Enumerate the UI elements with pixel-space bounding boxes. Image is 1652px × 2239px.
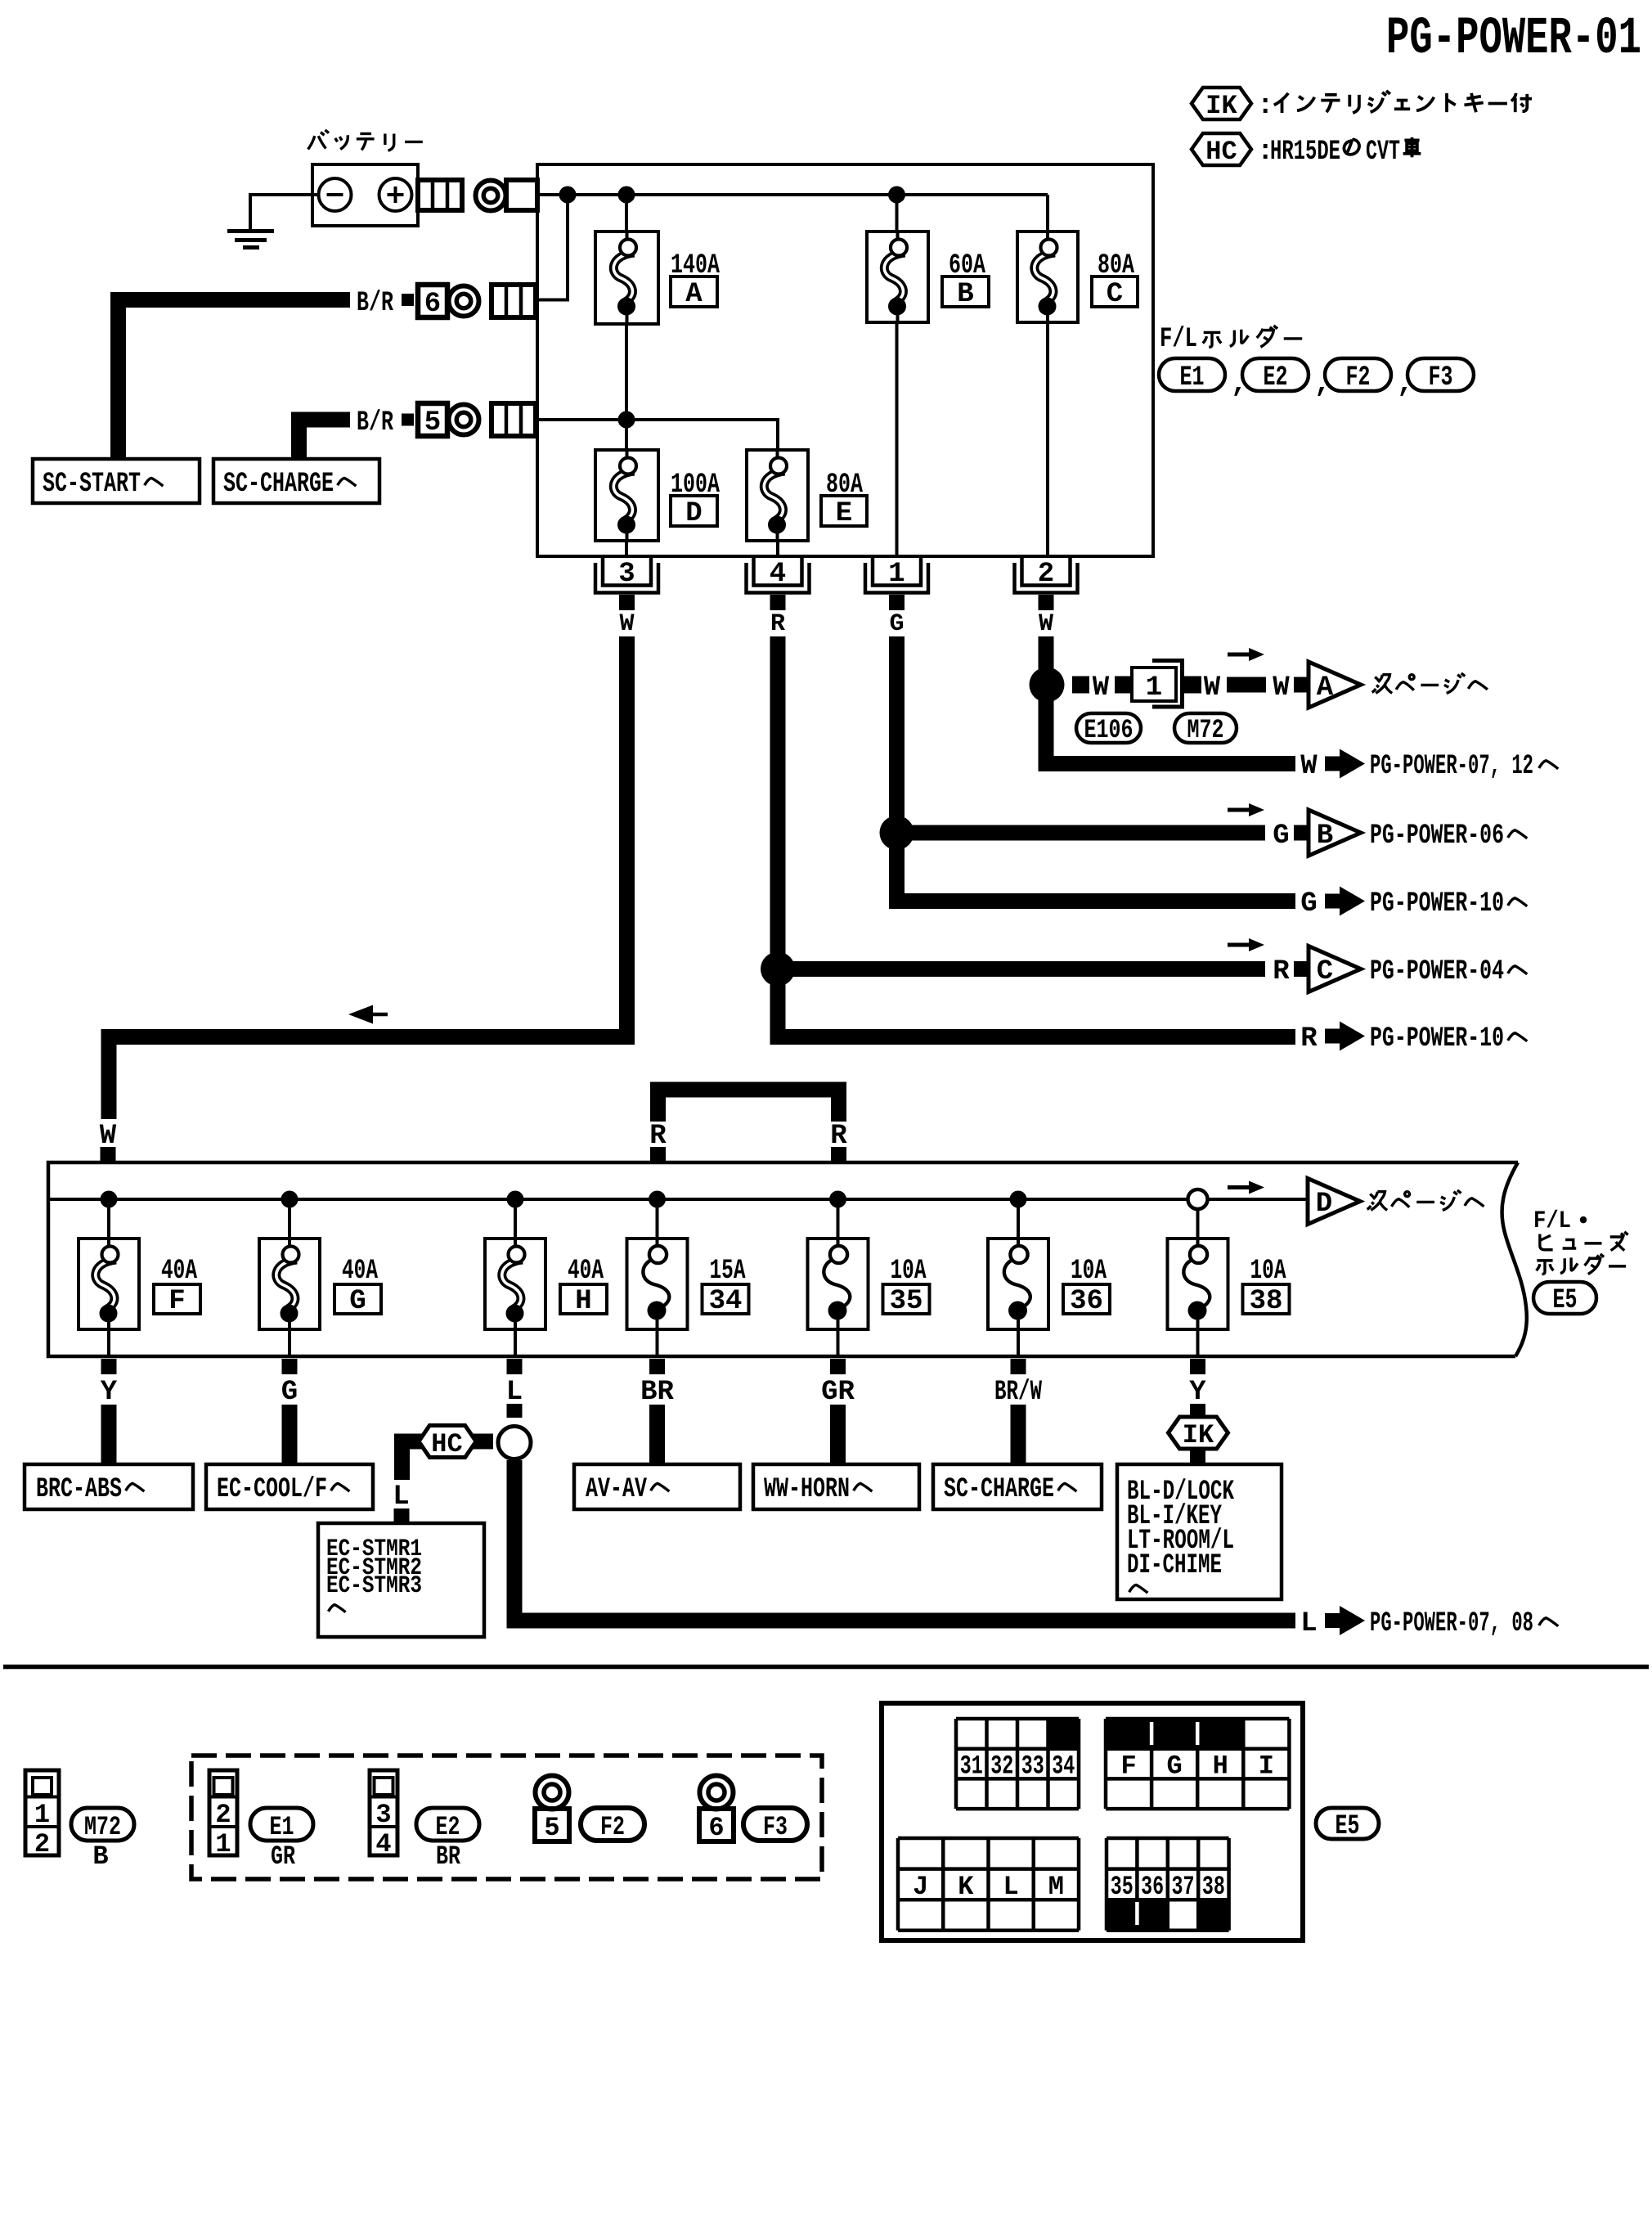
splice circle [498, 1427, 531, 1459]
svg-text:10A: 10A [1250, 1256, 1286, 1287]
svg-text:C: C [1107, 279, 1123, 310]
svg-text:B: B [957, 279, 973, 310]
fuse 35 column wires [837, 1199, 840, 1239]
ground wire [250, 193, 319, 196]
fuse F column wires [107, 1199, 110, 1239]
page connector C [1309, 946, 1361, 992]
svg-text:R: R [770, 610, 785, 638]
connector E2 pin view [370, 1770, 397, 1855]
lower bus wire [537, 420, 778, 450]
svg-text:E2: E2 [1264, 362, 1288, 393]
svg-text:35: 35 [890, 1286, 923, 1317]
fuse body [988, 1239, 1048, 1329]
svg-text:38: 38 [1250, 1286, 1283, 1317]
wire W dash [1227, 677, 1266, 693]
svg-text:E5: E5 [1553, 1285, 1578, 1316]
terminal pin [1039, 595, 1054, 610]
svg-text:I: I [1259, 1751, 1274, 1782]
svg-text:R: R [1300, 1023, 1318, 1054]
pin and label G [282, 1359, 298, 1374]
svg-text:F2: F2 [1346, 362, 1371, 393]
svg-text:BRC-ABS: BRC-ABS [36, 1474, 122, 1505]
AV-AV box [574, 1464, 740, 1509]
fuse grid 35-38 [1107, 1900, 1137, 1931]
SC-START destination box [33, 459, 200, 503]
connector oval F3 [1407, 358, 1474, 391]
ground [227, 229, 274, 233]
svg-text:PG-POWER-04: PG-POWER-04 [1370, 956, 1504, 987]
connector M72 pin view [25, 1770, 59, 1855]
svg-text:SC-CHARGE: SC-CHARGE [944, 1474, 1054, 1505]
svg-text:CVT: CVT [1366, 137, 1400, 168]
branch to PG-POWER-06 [897, 825, 1266, 841]
svg-text:PG-POWER-06: PG-POWER-06 [1370, 821, 1504, 852]
svg-text:IK: IK [1183, 1420, 1214, 1450]
fusible link body [867, 232, 928, 322]
svg-text:W: W [1093, 672, 1110, 704]
svg-text:R: R [1273, 956, 1290, 987]
svg-text:B: B [92, 1841, 108, 1872]
flow arrow right [1228, 943, 1251, 947]
svg-text::: : [1257, 91, 1273, 122]
svg-text:F/L: F/L [1160, 324, 1197, 355]
stub [402, 414, 414, 426]
svg-text:BR: BR [640, 1377, 674, 1408]
dashed group box [191, 1756, 822, 1879]
node dot lower bus [618, 411, 635, 429]
fusible link block E1/E2/F2/F3 [537, 164, 1153, 556]
fuse G column wires [288, 1199, 291, 1239]
pin and label GR [830, 1359, 846, 1374]
svg-text:DI-CHIME: DI-CHIME [1127, 1550, 1222, 1581]
svg-text:6: 6 [708, 1813, 724, 1843]
svg-text:2: 2 [34, 1829, 50, 1859]
hatched connector [492, 403, 536, 436]
svg-text:HC: HC [431, 1429, 462, 1459]
svg-text:6: 6 [424, 289, 441, 320]
fusible link body [79, 1239, 139, 1329]
F/L fuse holder box E5 [48, 1162, 1518, 1356]
svg-text:G: G [1300, 888, 1317, 919]
connector F2 oval [581, 1808, 644, 1841]
svg-text:33: 33 [1021, 1751, 1044, 1782]
svg-text:E1: E1 [1180, 362, 1205, 393]
connector oval E1 [1159, 358, 1225, 391]
svg-text:AV-AV: AV-AV [586, 1474, 647, 1505]
svg-text:1: 1 [1146, 672, 1162, 704]
BRC-ABS box [25, 1464, 193, 1509]
svg-text:5: 5 [424, 407, 441, 438]
svg-text:36: 36 [1141, 1872, 1164, 1902]
fuse body [1168, 1239, 1228, 1329]
arrow to PG-POWER-10 [1325, 1029, 1343, 1044]
legend IK hexagon [1192, 88, 1251, 119]
svg-text:5: 5 [544, 1813, 559, 1843]
svg-text:PG-POWER-10: PG-POWER-10 [1370, 888, 1504, 919]
svg-text:H: H [1213, 1751, 1228, 1782]
svg-text:F: F [1120, 1751, 1136, 1782]
connector E106 oval [1076, 713, 1141, 743]
pin and label Y [101, 1359, 117, 1374]
svg-text:PG-POWER-07, 08: PG-POWER-07, 08 [1370, 1608, 1533, 1639]
EC-STMR box [318, 1523, 484, 1637]
terminal 1 of fuse block [873, 556, 921, 586]
svg-text:L: L [393, 1481, 409, 1513]
BL destination list box [1117, 1464, 1282, 1599]
G wire from terminal 1 [897, 636, 1296, 901]
svg-text:F: F [168, 1286, 185, 1317]
wire GR to WW-HORN [830, 1405, 846, 1464]
svg-text:WW-HORN: WW-HORN [764, 1474, 850, 1505]
svg-text:PG-POWER-07, 12: PG-POWER-07, 12 [1370, 751, 1533, 782]
svg-text:M: M [1048, 1872, 1064, 1902]
R wire from terminal 4 [778, 636, 1295, 1037]
svg-text:F3: F3 [1429, 362, 1453, 393]
wire B/R to SC-START [119, 300, 351, 460]
svg-text:HC: HC [1205, 137, 1237, 167]
svg-text:L: L [1003, 1872, 1019, 1902]
svg-text:E106: E106 [1084, 715, 1134, 745]
flow arrow left [371, 1013, 388, 1017]
separator line [3, 1665, 1649, 1670]
svg-text:A: A [1317, 672, 1334, 704]
fuse grid J-M [896, 1838, 900, 1931]
row A dashes and connector 1 [1072, 677, 1089, 694]
HC branch elbow [402, 1441, 494, 1480]
svg-text:G: G [1167, 1751, 1183, 1782]
flow arrow right [1228, 808, 1251, 812]
terminal pin [889, 595, 905, 610]
svg-text:38: 38 [1202, 1872, 1225, 1902]
connector M72 oval [71, 1808, 134, 1841]
wire B/R to SC-CHARGE [299, 420, 351, 459]
holder bus wire [48, 1198, 1308, 1201]
terminal 3 of fuse block [603, 556, 651, 586]
SC-CHARGE destination box [213, 459, 379, 503]
svg-text:L: L [506, 1377, 523, 1408]
WW-HORN box [753, 1464, 919, 1509]
connector 6 [418, 285, 447, 317]
pin and label Y [1190, 1359, 1205, 1374]
page connector D [1308, 1179, 1360, 1225]
IK hexagon [1169, 1417, 1228, 1449]
open node fuse 38 [1188, 1189, 1208, 1209]
fuse body [627, 1239, 688, 1329]
fusible link body [485, 1239, 545, 1329]
battery connector hatched [418, 180, 462, 210]
svg-text:32: 32 [990, 1751, 1013, 1782]
svg-text:EC-COOL/F: EC-COOL/F [217, 1474, 327, 1505]
svg-text:40A: 40A [342, 1256, 378, 1287]
svg-text:1: 1 [34, 1800, 50, 1830]
svg-text:B/R: B/R [357, 288, 393, 319]
svg-text:PG-POWER-10: PG-POWER-10 [1370, 1023, 1504, 1054]
L column pin [507, 1404, 523, 1418]
legend HC hexagon [1192, 133, 1251, 165]
svg-text:G: G [889, 610, 904, 638]
svg-text:BR: BR [436, 1841, 461, 1872]
svg-text:10A: 10A [891, 1256, 927, 1287]
fusible link body [595, 232, 658, 324]
HC hexagon [419, 1426, 476, 1458]
connector E1 pin view [209, 1770, 237, 1855]
svg-text:W: W [1204, 672, 1221, 704]
svg-text:F3: F3 [763, 1812, 788, 1842]
svg-text:40A: 40A [161, 1256, 197, 1287]
svg-text:E5: E5 [1336, 1811, 1360, 1842]
svg-text:A: A [685, 279, 703, 310]
svg-text:34: 34 [1052, 1751, 1075, 1782]
branch to PG-POWER-04 [778, 961, 1265, 977]
svg-text:4: 4 [375, 1829, 391, 1859]
svg-text:GR: GR [821, 1377, 855, 1408]
wire G to EC-COOL/F [282, 1405, 298, 1464]
node dots holder bus [101, 1191, 118, 1208]
fusible link body [1017, 232, 1078, 322]
svg-text:4: 4 [770, 559, 786, 590]
stub [402, 294, 414, 306]
svg-text:D: D [1316, 1189, 1332, 1220]
fuse 36 column wires [1017, 1199, 1020, 1239]
svg-text:Y: Y [101, 1377, 118, 1408]
connector oval E2 [1242, 358, 1309, 391]
page connector B [1309, 810, 1361, 856]
svg-text:G: G [349, 1286, 366, 1317]
svg-text:M72: M72 [84, 1812, 121, 1842]
svg-text:L: L [1300, 1608, 1317, 1639]
connector F3 oval [743, 1808, 807, 1841]
connector M72 oval [1174, 713, 1237, 743]
battery ring terminal [476, 181, 506, 211]
connector 5 [418, 403, 447, 436]
top bus wire [537, 193, 1048, 196]
svg-text:Y: Y [1189, 1377, 1206, 1408]
ring terminal 6 [700, 1776, 734, 1810]
battery label [308, 130, 329, 150]
fusible link body [595, 450, 658, 541]
fuse 34 column wires [656, 1199, 659, 1239]
pin [101, 1147, 116, 1162]
pin and label BR/W [1011, 1359, 1026, 1374]
wire fuse E column [776, 541, 779, 556]
svg-text:35: 35 [1111, 1872, 1134, 1902]
IK column stub [1190, 1404, 1205, 1464]
W wire from terminal 3 to F/L fuse holder [109, 636, 627, 1119]
pin and label BR [649, 1359, 665, 1374]
wire fuse B column [896, 195, 899, 232]
fusible link body [259, 1239, 320, 1329]
connector oval F2 [1325, 358, 1391, 391]
connector oval E5 [1316, 1808, 1379, 1839]
fuse body [808, 1239, 869, 1329]
fuse grid F-I [1106, 1719, 1151, 1749]
svg-text:W: W [1300, 751, 1318, 782]
svg-text:3: 3 [375, 1800, 391, 1830]
terminal 4 of fuse block [754, 556, 802, 586]
svg-text:D: D [685, 498, 702, 529]
svg-text:B: B [1317, 821, 1333, 852]
svg-text:1: 1 [215, 1829, 231, 1859]
svg-text:E2: E2 [436, 1812, 460, 1842]
svg-text:SC-CHARGE: SC-CHARGE [223, 469, 334, 500]
svg-text:C: C [1317, 956, 1333, 987]
svg-text:36: 36 [1070, 1286, 1103, 1317]
pin and label L [507, 1359, 523, 1374]
svg-text:PG-POWER-01: PG-POWER-01 [1386, 10, 1641, 69]
terminal pin [619, 595, 635, 610]
svg-text:10A: 10A [1071, 1256, 1107, 1287]
stub to B/R 6 connector [537, 195, 568, 300]
svg-text:HR15DE: HR15DE [1270, 137, 1340, 168]
svg-text:F/L: F/L [1533, 1207, 1571, 1235]
svg-text:SC-START: SC-START [43, 469, 141, 500]
connector oval E5 [1533, 1282, 1596, 1314]
R-R bridge wire [658, 1090, 839, 1122]
hatched connector [492, 285, 536, 317]
svg-text:J: J [913, 1872, 928, 1902]
svg-text:M72: M72 [1187, 715, 1224, 745]
svg-text:W: W [1273, 672, 1290, 704]
wire BR to AV-AV [649, 1405, 665, 1464]
node dots top bus [559, 187, 577, 204]
svg-text:H: H [575, 1286, 591, 1317]
svg-text:E: E [836, 498, 852, 529]
svg-text:BR/W: BR/W [994, 1377, 1042, 1408]
svg-text:3: 3 [618, 559, 635, 590]
svg-text:37: 37 [1172, 1872, 1195, 1902]
svg-text:34: 34 [709, 1286, 743, 1317]
EC-COOL/F box [206, 1464, 373, 1509]
wire Y to BRC-ABS [101, 1405, 117, 1464]
W wire from terminal 2 [1046, 636, 1295, 764]
svg-text:W: W [1039, 610, 1053, 638]
SC-CHARGE box [933, 1464, 1102, 1509]
wire BR/W to SC-CHARGE [1011, 1405, 1026, 1464]
terminal 2 of fuse block [1022, 556, 1071, 586]
arrow to next page D [1228, 1185, 1251, 1189]
in-line connector 1 (E106/M72) [1132, 668, 1176, 701]
svg-text:W: W [619, 610, 634, 638]
fuse grid 31-34 [1048, 1719, 1080, 1749]
svg-text:E1: E1 [270, 1812, 294, 1842]
svg-text:EC-STMR3: EC-STMR3 [326, 1572, 422, 1600]
svg-text:G: G [1273, 821, 1289, 852]
connector E2 oval [416, 1808, 479, 1841]
fuse H column wires [514, 1199, 517, 1239]
battery tab into fuse block [506, 180, 537, 210]
L wire to PG-POWER-07,08 [514, 1460, 1295, 1621]
pin [394, 1508, 410, 1522]
svg-text:2: 2 [1038, 559, 1054, 590]
terminal pin [770, 595, 786, 610]
ring terminal 5 [536, 1776, 569, 1810]
svg-text:G: G [281, 1377, 298, 1408]
svg-text:2: 2 [215, 1800, 231, 1830]
connector E1 oval [250, 1808, 313, 1841]
svg-text:GR: GR [271, 1841, 296, 1872]
ring terminal 6 [449, 286, 479, 317]
ring terminal 5 [449, 405, 479, 435]
svg-text:40A: 40A [568, 1256, 604, 1287]
fuse 38 column wires [1196, 1199, 1200, 1239]
battery [312, 164, 418, 226]
svg-text:F2: F2 [600, 1812, 625, 1842]
svg-text:15A: 15A [710, 1256, 746, 1287]
svg-text:1: 1 [888, 559, 905, 590]
wire fuse A column [625, 195, 628, 232]
fusible link body [747, 450, 808, 541]
svg-text:K: K [958, 1872, 974, 1902]
svg-text:IK: IK [1205, 91, 1237, 121]
E5 fuse box layout [882, 1703, 1303, 1940]
svg-text:31: 31 [960, 1751, 983, 1782]
flow arrow right [1228, 653, 1251, 657]
wire fuse C column [1046, 195, 1049, 232]
svg-text:B/R: B/R [357, 407, 393, 438]
page connector A [1309, 662, 1361, 708]
